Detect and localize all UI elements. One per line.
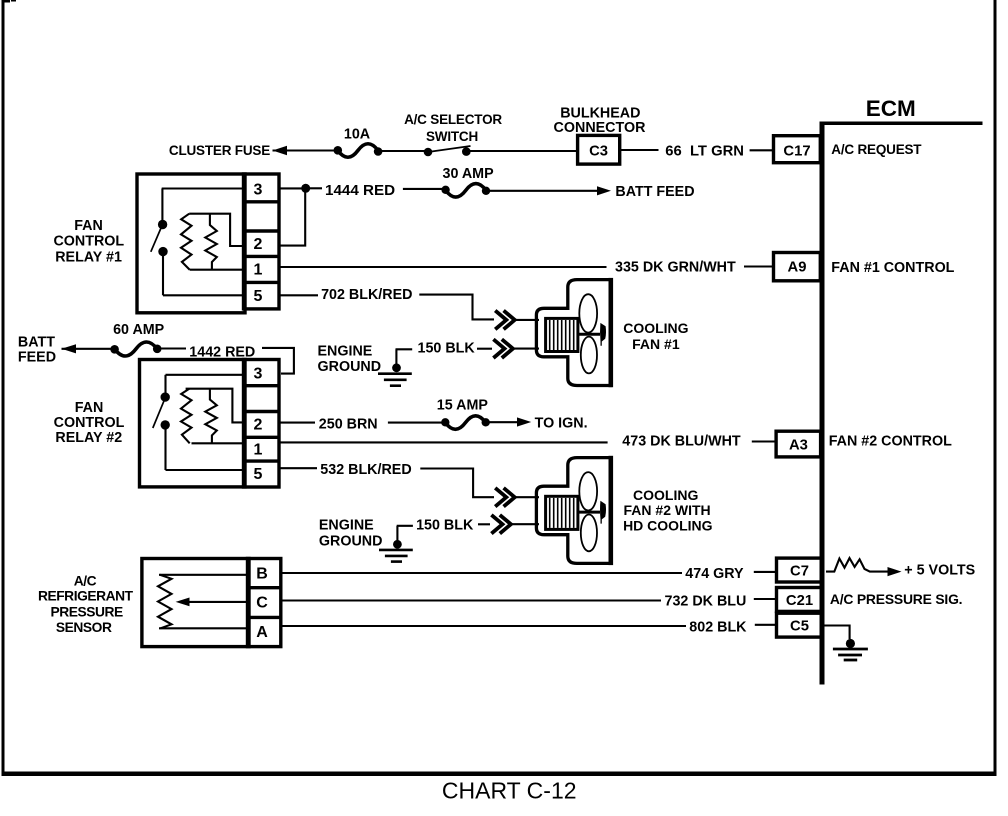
fan2 blade top (579, 472, 597, 510)
svg-text:5: 5 (254, 466, 263, 483)
svg-text:REFRIGERANT: REFRIGERANT (38, 589, 134, 604)
svg-text:1: 1 (254, 262, 263, 279)
sensor resistor (158, 575, 172, 629)
node junction 1444 (301, 184, 310, 193)
svg-text:150 BLK: 150 BLK (416, 518, 474, 534)
svg-text:SWITCH: SWITCH (426, 129, 478, 144)
svg-text:TO IGN.: TO IGN. (535, 416, 588, 432)
svg-text:2: 2 (254, 417, 263, 434)
wire fuse to switch (381, 150, 425, 152)
svg-text:15 AMP: 15 AMP (437, 398, 489, 414)
svg-text:3: 3 (254, 366, 263, 383)
fuse 60 AMP (110, 345, 119, 354)
wire junction to 1444 RED (310, 187, 322, 189)
connector A3 (776, 431, 821, 457)
svg-text:30 AMP: 30 AMP (443, 166, 495, 182)
svg-text:FAN #1 CONTROL: FAN #1 CONTROL (831, 260, 954, 276)
relay2 switch (164, 375, 166, 394)
switch A/C selector (424, 148, 433, 157)
svg-text:C3: C3 (589, 144, 608, 160)
wire C3 to 66 LT GRN (620, 149, 659, 151)
connector C3 (578, 135, 620, 164)
wire cluster fuse row (273, 149, 337, 151)
svg-text:3: 3 (254, 181, 263, 198)
wire 473 row pin1 to text (280, 441, 607, 443)
fan2 shroud right bar (609, 456, 614, 565)
svg-text:702 BLK/RED: 702 BLK/RED (321, 287, 412, 303)
cooling fan 2 motor (536, 458, 612, 564)
wire chevron to motor (515, 319, 539, 321)
svg-text:CLUSTER FUSE: CLUSTER FUSE (169, 143, 270, 158)
fan1 armature hatch (550, 320, 574, 350)
wire switch to C3 (470, 150, 578, 152)
svg-text:A/C: A/C (74, 574, 97, 589)
fan1 blade top (579, 294, 597, 332)
fan1 shaft (578, 333, 600, 336)
wire 702 to fan1 (419, 295, 494, 320)
arrowhead cluster fuse (273, 146, 288, 156)
wire 150 BLK fan2 ground row (397, 525, 413, 527)
fan2 shaft (578, 511, 600, 514)
svg-text:A/C SELECTOR: A/C SELECTOR (404, 112, 502, 127)
svg-text:C5: C5 (790, 619, 809, 635)
svg-text:532 BLK/RED: 532 BLK/RED (320, 462, 411, 478)
relay1 wire to pin5 (163, 294, 244, 296)
fan2 rotation arrow (600, 501, 606, 524)
fuse 10A (334, 146, 343, 155)
svg-text:FAN #2 CONTROL: FAN #2 CONTROL (829, 434, 952, 450)
sensor wiper arrow (188, 601, 248, 603)
wire pin5 to 532 text (280, 467, 317, 469)
svg-text:66 LT GRN: 66 LT GRN (665, 144, 744, 160)
relay2 internal wire to pin3 (166, 374, 244, 376)
wire fuse to 1442 text (161, 347, 187, 349)
fan1 shroud right bar (609, 278, 614, 387)
svg-text:474 GRY: 474 GRY (685, 566, 744, 582)
svg-text:ECM: ECM (866, 96, 916, 121)
wire pin5 to 702 text (280, 294, 318, 296)
wire B row (281, 572, 682, 574)
ground C5 (824, 626, 850, 640)
wire fuse to batt feed (489, 190, 598, 192)
svg-text:PRESSURE: PRESSURE (50, 605, 123, 620)
wire 473 text to A3 (752, 440, 776, 442)
chevrons fan1 feed (495, 311, 506, 330)
cooling fan 1 motor (536, 280, 612, 386)
fan2 armature hatch (550, 498, 574, 528)
wire fuse to ign arrow (489, 421, 518, 423)
svg-text:RELAY #2: RELAY #2 (55, 430, 122, 446)
svg-text:BATT FEED: BATT FEED (615, 184, 694, 200)
svg-text:A3: A3 (789, 438, 808, 454)
connector A9 (774, 253, 821, 281)
ECM vertical line (820, 122, 825, 685)
wire 335 row pin1 to text (280, 266, 606, 268)
pressure sensor box (142, 559, 281, 647)
ground fan1 (395, 349, 397, 364)
relay1 internal: wire to pin3 (162, 187, 244, 189)
svg-text:335 DK GRN/WHT: 335 DK GRN/WHT (615, 260, 736, 276)
border frame left (2, 0, 5, 776)
chevrons fan2 feed (495, 488, 506, 507)
svg-text:FAN #2 WITH: FAN #2 WITH (624, 502, 711, 518)
connector C7 (777, 558, 823, 582)
svg-text:CHART C-12: CHART C-12 (442, 778, 577, 804)
wire 532 to fan2 (420, 469, 494, 498)
svg-text:CONTROL: CONTROL (54, 415, 125, 431)
wire pin2 to 250 BRN (280, 422, 315, 424)
chevrons fan2 ground (491, 515, 502, 534)
svg-text:1442 RED: 1442 RED (189, 345, 255, 361)
relay2 coil (186, 389, 244, 423)
chevrons fan1 ground (493, 339, 504, 358)
svg-text:C21: C21 (786, 593, 813, 609)
sensor top wire (159, 574, 248, 576)
svg-text:A/C REQUEST: A/C REQUEST (831, 142, 922, 157)
svg-text:150 BLK: 150 BLK (418, 341, 476, 357)
wire 150 BLK fan1 ground row (396, 348, 413, 350)
svg-text:SENSOR: SENSOR (56, 620, 112, 635)
svg-text:HD COOLING: HD COOLING (623, 517, 713, 533)
fan2 blade bottom (581, 515, 597, 552)
fan1 blade bottom (581, 337, 597, 374)
connector C17 (774, 136, 821, 163)
svg-text:5: 5 (254, 288, 263, 305)
svg-text:+ 5 VOLTS: + 5 VOLTS (904, 563, 975, 579)
svg-text:10A: 10A (344, 127, 370, 143)
svg-text:B: B (256, 565, 268, 582)
wire 1444 RED to fuse (403, 188, 442, 190)
svg-text:1444 RED: 1444 RED (325, 182, 395, 199)
wire batt feed left arrow (62, 348, 112, 350)
relay1 switch (161, 189, 163, 222)
border frame right (994, 0, 997, 774)
svg-text:ENGINE: ENGINE (319, 518, 374, 534)
svg-text:60 AMP: 60 AMP (113, 322, 165, 338)
connector C5 (777, 613, 823, 637)
svg-text:C: C (256, 595, 268, 612)
fuse 15 AMP (441, 418, 449, 426)
svg-text:CONTROL: CONTROL (53, 234, 124, 250)
wire 250 BRN to fuse 15A (388, 422, 442, 424)
relay1 coil (189, 214, 243, 246)
border frame bottom (2, 772, 997, 777)
svg-text:GROUND: GROUND (319, 533, 383, 549)
fan1 rotation arrow (600, 323, 606, 346)
svg-text:732 DK BLU: 732 DK BLU (665, 594, 747, 610)
wire A row (281, 625, 686, 627)
fan control relay 2 (140, 360, 280, 488)
svg-text:A9: A9 (788, 260, 807, 276)
fan control relay 1 (137, 174, 279, 313)
svg-text:CONNECTOR: CONNECTOR (554, 120, 647, 136)
svg-text:COOLING: COOLING (623, 320, 688, 336)
wire C row (281, 599, 661, 601)
svg-text:FEED: FEED (18, 350, 56, 366)
svg-text:C7: C7 (790, 564, 809, 580)
border frame top-left tick (2, 0, 10, 3)
svg-text:FAN: FAN (74, 218, 103, 234)
wire junction down to pin2 (280, 190, 305, 246)
fuse 30 AMP (441, 186, 449, 194)
wire 335 text to A9 (744, 265, 774, 267)
svg-text:A/C PRESSURE SIG.: A/C PRESSURE SIG. (830, 591, 962, 607)
svg-text:FAN: FAN (75, 400, 104, 416)
wire 1442 to relay2 pin3 (262, 348, 294, 374)
svg-text:2: 2 (254, 236, 263, 253)
wire pin3 to junction (280, 187, 302, 189)
connector C21 (777, 588, 823, 612)
relay2 wire to pin5 (166, 469, 244, 471)
ground fan2 (396, 526, 398, 541)
svg-text:COOLING: COOLING (633, 487, 698, 503)
sensor bottom wire (159, 627, 248, 629)
wire 66 LT GRN to C17 (750, 149, 774, 151)
svg-text:BATT: BATT (18, 335, 55, 351)
svg-text:473 DK BLU/WHT: 473 DK BLU/WHT (622, 434, 741, 450)
arrowhead batt feed (597, 186, 611, 195)
svg-text:FAN #1: FAN #1 (632, 336, 680, 352)
svg-text:RELAY #1: RELAY #1 (55, 249, 122, 265)
svg-text:1: 1 (254, 441, 263, 458)
svg-text:802 BLK: 802 BLK (689, 620, 747, 636)
svg-text:A: A (256, 624, 268, 641)
ECM top line (820, 122, 983, 126)
svg-text:ENGINE: ENGINE (318, 344, 373, 360)
svg-text:GROUND: GROUND (318, 359, 382, 375)
svg-text:250 BRN: 250 BRN (319, 416, 378, 432)
svg-text:C17: C17 (783, 144, 810, 160)
resistor +5V (826, 558, 898, 572)
